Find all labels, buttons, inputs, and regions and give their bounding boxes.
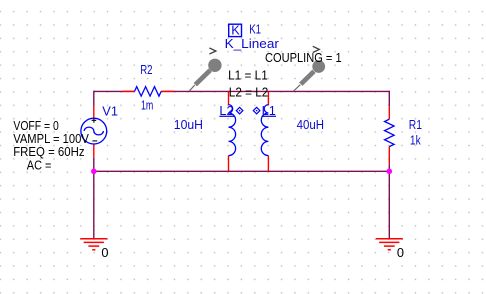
pin: L2 bottom lead (228, 156, 230, 172)
wire: V1 top vertical segment (93, 91, 95, 106)
wire bottom net: left junction to right junction (94, 170, 390, 172)
wire: right junction down to ground (388, 171, 390, 238)
svg-text:40uH: 40uH (297, 117, 324, 132)
svg-text:L2: L2 (219, 103, 233, 118)
svg-text:K_Linear: K_Linear (225, 36, 280, 51)
svg-text:10uH: 10uH (174, 117, 203, 132)
pin: L1 bottom lead (267, 156, 269, 172)
svg-text:V1: V1 (102, 104, 118, 119)
resistor R2 body (135, 87, 162, 97)
pin: R1 bottom lead (388, 147, 390, 165)
svg-text:K1: K1 (249, 21, 261, 36)
pin: V1 minus lead (93, 144, 95, 158)
wire: left junction down to ground (93, 171, 95, 238)
pin: R2 left lead (122, 90, 134, 92)
pin: R1 top lead (388, 106, 390, 119)
probe marker (left voltage marker) (189, 48, 221, 91)
svg-text:L2 = L2: L2 = L2 (229, 85, 268, 100)
svg-text:0: 0 (101, 245, 108, 260)
junction node: R1/ground/bottom net (387, 169, 393, 175)
inductor L2 body (229, 105, 236, 156)
svg-text:L1: L1 (262, 103, 276, 118)
pin: L2 top lead (228, 91, 230, 105)
svg-text:1m: 1m (141, 98, 153, 113)
L2 phase dot (236, 107, 243, 114)
inductor L1 body (261, 105, 268, 156)
svg-text:0: 0 (397, 245, 404, 260)
wire: R1 bottom to junction (388, 164, 390, 171)
L1 phase dot (253, 107, 260, 114)
wire top net: R2 right to R1 corner (161, 90, 389, 92)
svg-text:R2: R2 (140, 62, 152, 77)
ground 0 (right) (376, 239, 403, 250)
V1 plus mark (92, 118, 97, 123)
wire: R1 top vertical segment (388, 91, 390, 107)
pin: L1 top lead (267, 91, 269, 105)
ground 0 (left) (80, 239, 107, 250)
wire: V1 bottom to junction (93, 158, 95, 172)
wire top net: V1 corner to R2 left (94, 90, 135, 92)
V1 minus mark (92, 140, 97, 142)
V1 sine wave (84, 127, 103, 135)
junction node: V1/ground/bottom net (91, 169, 97, 175)
resistor R1 body (385, 119, 395, 146)
coupling symbol K1 box (229, 24, 242, 36)
svg-text:COUPLING = 1: COUPLING = 1 (265, 50, 342, 65)
svg-text:AC =: AC = (27, 157, 52, 172)
svg-text:R1: R1 (409, 117, 422, 132)
pin: R2 right lead (161, 90, 174, 92)
probe marker (right voltage marker) (293, 46, 325, 91)
svg-text:L1 = L1: L1 = L1 (228, 68, 268, 83)
voltage source V1 body (81, 118, 107, 144)
svg-text:1k: 1k (410, 133, 421, 148)
pin: V1 plus lead (93, 105, 95, 118)
